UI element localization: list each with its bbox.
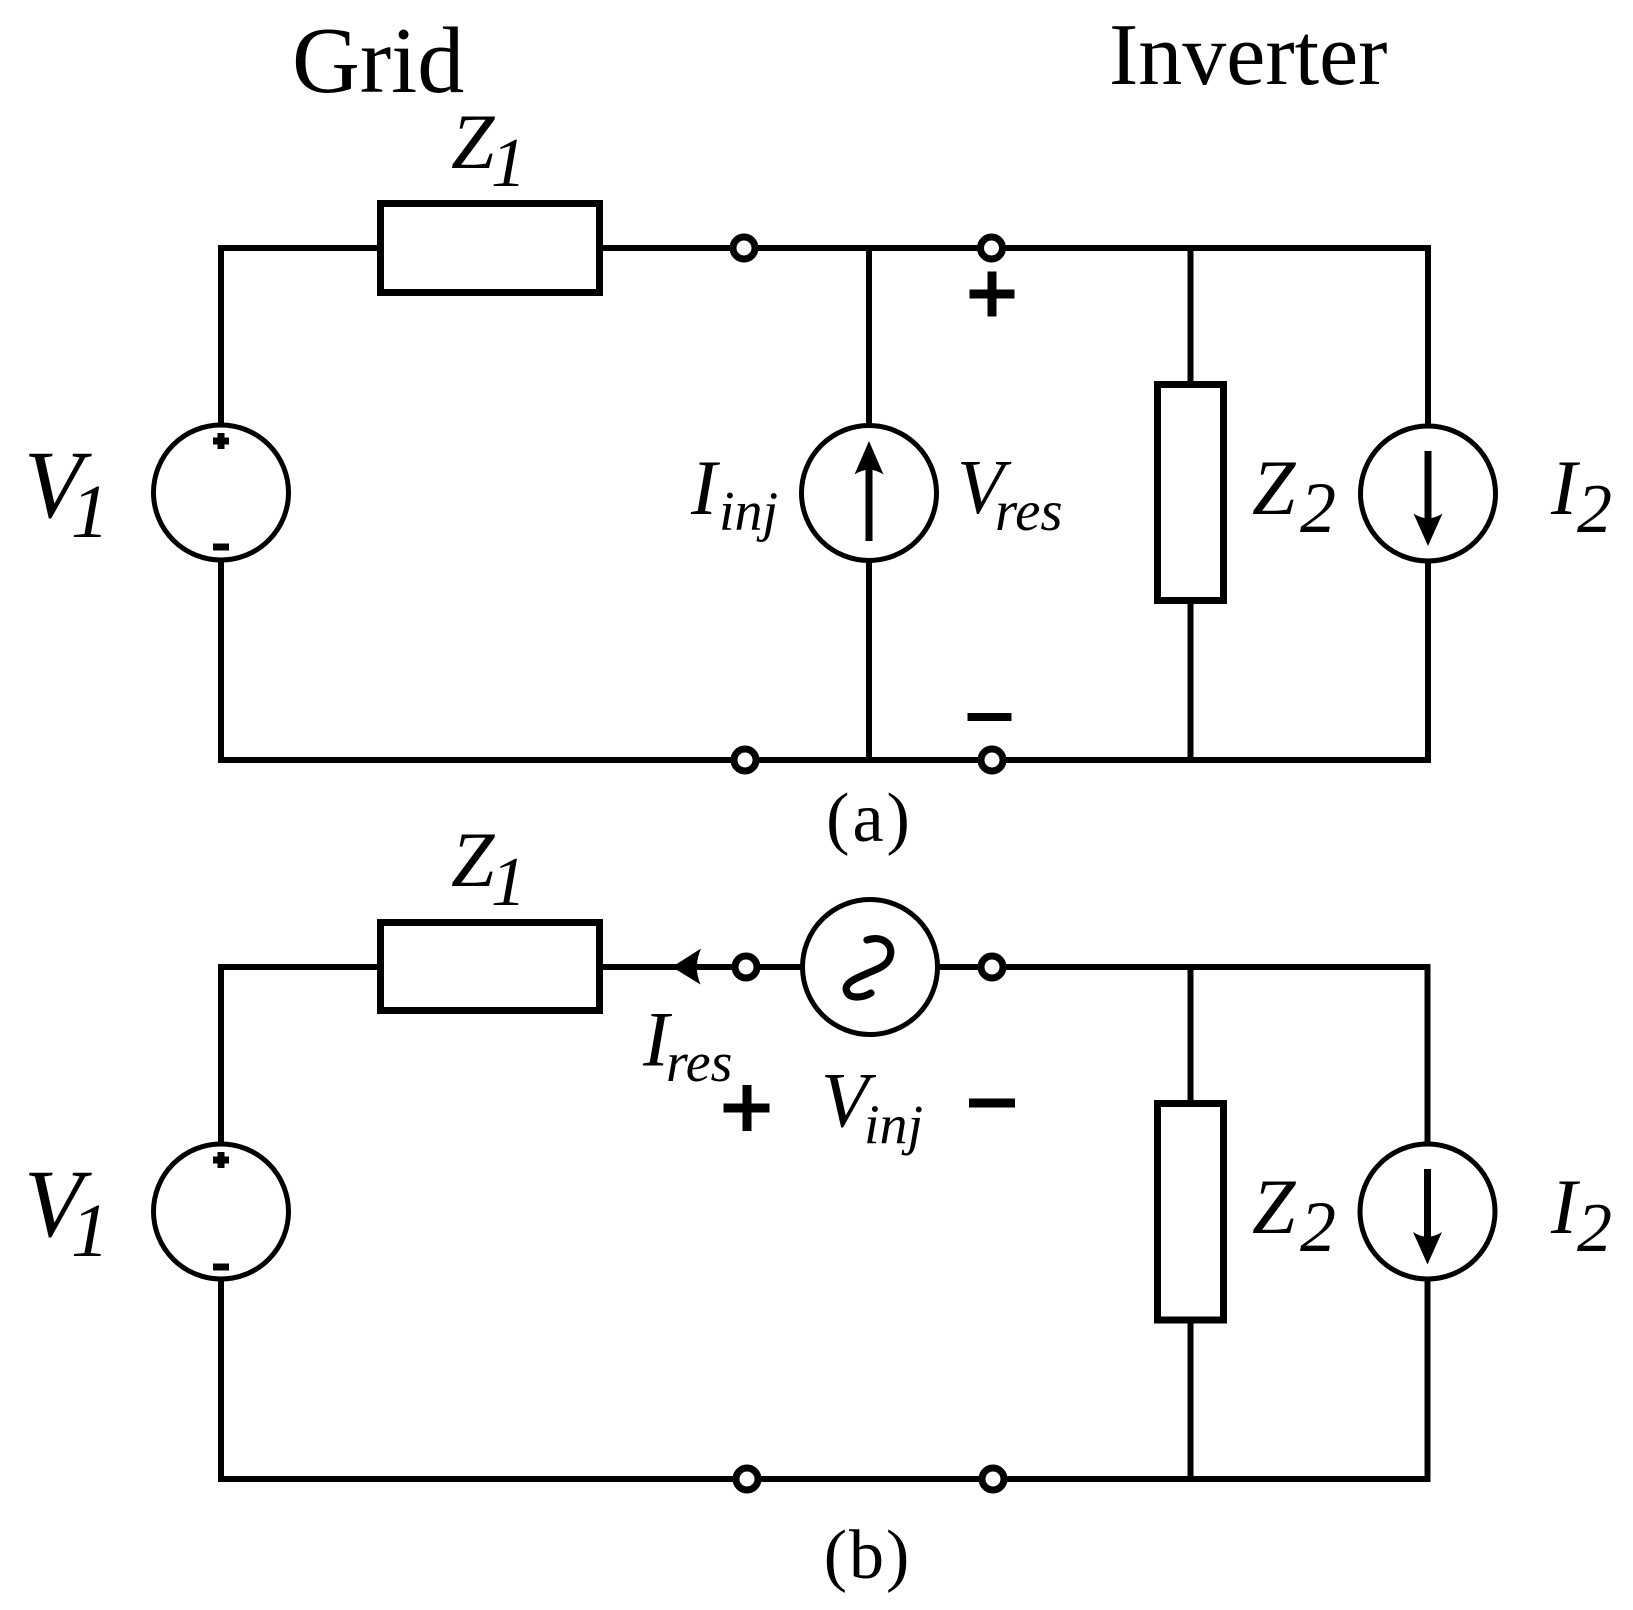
label V1 (a): [24, 431, 109, 554]
label Iinj: [690, 444, 778, 543]
wire b-Z2-branch: [1188, 967, 1194, 1479]
svg-text:Grid: Grid: [292, 9, 464, 113]
label Z1 (b): [451, 816, 526, 921]
svg-text:2: 2: [1577, 1190, 1612, 1267]
wire a-left: [218, 245, 224, 763]
resistor Z1 (a): [381, 204, 600, 293]
svg-text:2: 2: [1300, 468, 1336, 548]
label Vres plus: [970, 272, 1015, 317]
node b2: [981, 956, 1003, 978]
svg-text:inj: inj: [719, 481, 778, 543]
voltage source V1 (a): [154, 425, 289, 560]
node a1: [733, 237, 755, 259]
svg-text:Inverter: Inverter: [1109, 7, 1387, 104]
label Vres: [957, 444, 1063, 543]
svg-text:(a): (a): [826, 780, 913, 857]
label Z1 (a): [451, 98, 526, 202]
svg-text:inj: inj: [864, 1095, 923, 1157]
wire a-top: [218, 245, 1431, 251]
wire b-bottom: [218, 1476, 1431, 1482]
arrowhead Ires: [672, 949, 701, 985]
svg-text:Z: Z: [1252, 1163, 1297, 1250]
svg-text:Z: Z: [451, 98, 496, 185]
label Ires plus: [724, 1085, 770, 1131]
svg-text:1: 1: [491, 125, 526, 202]
wire b-right: [1425, 964, 1431, 1482]
wire b-left: [218, 964, 224, 1482]
svg-text:Z: Z: [451, 816, 496, 903]
wire a-right: [1425, 245, 1431, 763]
voltage source Vinj: [803, 900, 938, 1035]
svg-text:I: I: [690, 444, 721, 531]
impedance Z2 (b): [1158, 1104, 1224, 1321]
svg-text:res: res: [666, 1032, 732, 1094]
svg-text:2: 2: [1577, 471, 1612, 548]
label Z2 (a): [1252, 444, 1336, 548]
node b3: [736, 1468, 758, 1490]
svg-text:2: 2: [1300, 1187, 1336, 1267]
svg-text:(b): (b): [824, 1517, 912, 1594]
svg-text:1: 1: [71, 1189, 109, 1273]
wire a-Z2-branch: [1188, 248, 1194, 760]
svg-text:1: 1: [491, 844, 526, 921]
label Z2 (b): [1252, 1163, 1336, 1267]
current source I2 (b): [1360, 1144, 1495, 1279]
current source Iinj (a): [802, 426, 937, 561]
node a3: [734, 749, 756, 771]
node b4: [982, 1468, 1004, 1490]
wire b-top: [218, 964, 1431, 970]
node a2: [981, 237, 1003, 259]
label Vinj minus: [969, 1099, 1015, 1108]
wire a-Iinj-branch: [866, 248, 872, 760]
label I2 (a): [1550, 444, 1612, 548]
label Vres minus: [968, 713, 1012, 721]
resistor Z1 (b): [381, 923, 600, 1011]
node a4: [981, 749, 1003, 771]
label Ires: [642, 996, 732, 1095]
wire a-bottom: [218, 757, 1431, 763]
label I2 (b): [1550, 1163, 1612, 1267]
svg-text:res: res: [995, 480, 1063, 543]
voltage source V1 (b): [154, 1144, 289, 1279]
label V1 (b): [24, 1150, 109, 1273]
current source I2 (a): [1361, 426, 1496, 561]
node b1: [735, 956, 757, 978]
svg-text:Z: Z: [1252, 444, 1297, 531]
label Vinj: [821, 1057, 923, 1157]
impedance Z2 (a): [1158, 385, 1224, 601]
svg-text:1: 1: [71, 470, 109, 554]
